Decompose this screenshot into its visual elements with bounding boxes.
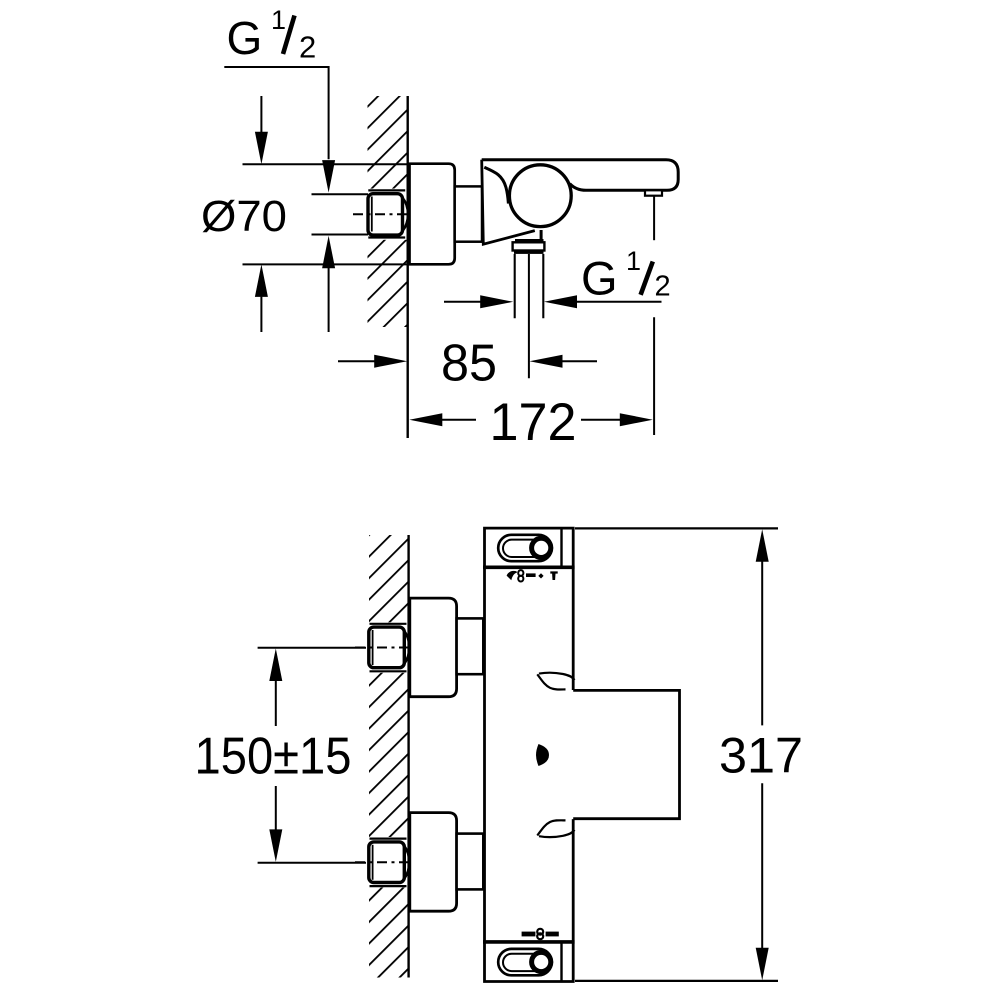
temperature icon: left dash [522, 932, 536, 937]
dimension 150±15 top extension line [258, 647, 366, 649]
bottom temperature knob [532, 952, 551, 971]
Ø70 bottom extension line [243, 263, 412, 265]
spout aerator front mark [536, 744, 549, 766]
dimension G 1/2 (hose nut) right arrow [544, 295, 577, 308]
lower nut centre line (dash-dot) [355, 861, 408, 863]
aerator extension line (upper) [653, 196, 655, 241]
upper union nut [370, 623, 407, 625]
middle mixer block [573, 690, 679, 818]
leader arrow up to nut bottom [322, 236, 335, 268]
svg-text:2: 2 [655, 270, 671, 302]
thermostat main column body [485, 528, 574, 981]
diverter icon: figure 8 glyph [518, 570, 523, 576]
svg-text:172: 172 [490, 393, 577, 452]
svg-text:1: 1 [626, 246, 641, 276]
dimension 85 right arrow [530, 355, 563, 368]
nut centre line (dash-dot) [353, 213, 407, 215]
dimension G 1/2 (hose nut) left arrow [444, 301, 481, 303]
cartridge cap circle [509, 165, 571, 227]
faucet body wedge (side view) [482, 160, 535, 245]
escutcheon flange (top view) [410, 164, 455, 265]
wall union nut (top view) [368, 189, 405, 191]
leader underline of G 1/2 label [224, 67, 328, 159]
hose centre extension line [528, 254, 530, 378]
dimension Ø70 arrow (bottom, pointing up) [255, 264, 268, 297]
upper escutcheon flange [410, 598, 457, 697]
top cap inner edge [560, 528, 562, 567]
bottom temperature slot (inner pill) [503, 954, 547, 971]
diverter icon: minus dash [526, 573, 536, 577]
body shoulder curve [484, 167, 508, 203]
hatch clearance band behind lower union nut [367, 837, 409, 888]
leader arrow down to nut thread [322, 160, 335, 193]
dimension 172 right arrow [581, 419, 620, 421]
bottom temperature slot (outer pill) [498, 949, 552, 975]
lower union nut [370, 837, 407, 839]
shower hose outline lines [514, 254, 516, 318]
bottom cap separator [483, 940, 575, 944]
dimension 85 left arrow [338, 360, 375, 362]
bath spout front silhouette (upper curves) [539, 673, 574, 680]
svg-text:317: 317 [719, 727, 803, 784]
top cap separator [483, 565, 575, 569]
diverter icon: bath tub [550, 571, 557, 580]
hatch clearance band behind upper union nut [367, 622, 409, 673]
bath spout front silhouette (lower curves) [539, 830, 574, 837]
svg-text:2: 2 [299, 30, 316, 65]
svg-text:Ø70: Ø70 [201, 193, 287, 241]
wall surface line [407, 96, 409, 438]
dimension 150±15 bottom extension line [258, 862, 366, 864]
svg-text:1: 1 [271, 5, 286, 35]
diverter icon: shower head [507, 571, 517, 580]
lower escutcheon flange [410, 813, 457, 912]
bottom cap inner edge [560, 942, 562, 982]
diverter icon: arrow diamond [538, 573, 543, 578]
aerator extension line (lower) [653, 317, 655, 435]
dimension 317 arrows [756, 529, 769, 562]
Ø70 top extension line [243, 163, 412, 165]
upper nut centre line (dash-dot) [355, 647, 408, 649]
dimension 150±15 arrows [269, 649, 282, 682]
faucet top edge and spout [482, 160, 679, 191]
temperature icon: right dash [546, 932, 559, 937]
lower spacer step [457, 834, 484, 890]
wall hatching (bottom view) [369, 535, 408, 978]
wall hatching (top view) [368, 96, 408, 327]
svg-text:G: G [581, 252, 618, 305]
nut top extension line [312, 193, 369, 195]
svg-text:G: G [227, 12, 263, 64]
top diverter knob [532, 538, 551, 557]
dimension 317 bottom extension line [575, 980, 778, 982]
dimension 172 left arrow [409, 413, 442, 426]
nut bottom extension line [312, 234, 369, 236]
shower outlet stem [540, 230, 543, 240]
svg-text:150±15: 150±15 [195, 727, 352, 785]
wall surface line (bottom view) [407, 535, 409, 978]
top diverter slot (outer pill) [498, 535, 552, 561]
svg-text:85: 85 [441, 335, 497, 393]
temperature icon: figure 8 glyph [537, 929, 543, 935]
dimension Ø70 arrow (top, pointing down) [260, 96, 262, 132]
upper spacer step [457, 618, 484, 674]
hatch clearance band behind wall union nut [366, 189, 408, 240]
dimension 317 top extension line [575, 527, 778, 529]
spacer step (top view) [455, 186, 482, 241]
spout aerator [645, 190, 662, 195]
top diverter slot (inner pill) [503, 540, 547, 557]
shower hose nut G 1/2 [515, 239, 544, 244]
